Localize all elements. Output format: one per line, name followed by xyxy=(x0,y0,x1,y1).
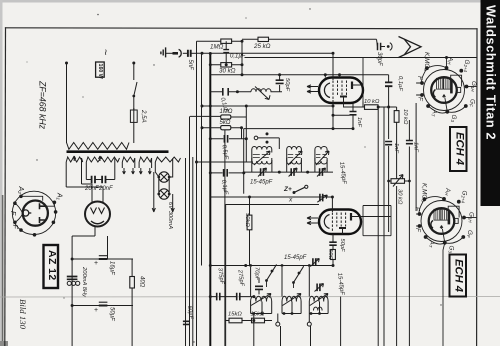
label AZ 12 box xyxy=(44,245,59,288)
capacitor 50pF (screen) xyxy=(273,75,284,92)
IF coil L1a/L1b xyxy=(252,147,272,173)
wire anode v1 down xyxy=(333,103,357,129)
junction (241.5,127.7) xyxy=(240,126,243,129)
S4 down arrows ~ xyxy=(139,168,151,174)
wire rail y197 xyxy=(210,196,333,198)
svg-text:0,1µF: 0,1µF xyxy=(397,76,403,91)
svg-text:~: ~ xyxy=(99,49,111,55)
svg-text:16µF: 16µF xyxy=(109,261,115,275)
wire rail v 409.4 xyxy=(408,120,410,232)
wire rails right to bottom xyxy=(384,103,416,346)
fuse 2.5A xyxy=(130,110,137,122)
socket wires xyxy=(21,196,54,206)
heater arrows F F xyxy=(307,216,318,224)
junction (249.5,197) xyxy=(248,196,251,199)
junction (279.3,172.1) xyxy=(278,171,281,174)
junction (333,53.3) xyxy=(332,52,335,55)
junction (158.8,177) xyxy=(157,176,160,179)
junction (245.7,265.5) xyxy=(244,264,247,267)
title banner xyxy=(481,0,500,206)
resistor 10kΩ (vert) xyxy=(394,107,399,179)
wire rail y57.5 xyxy=(245,57,477,59)
wire bus b xyxy=(189,116,191,346)
mains switch xyxy=(134,82,137,96)
junction (66.5,63) xyxy=(65,62,68,65)
trimmer 70pF xyxy=(255,278,263,294)
svg-text:200mA 8Hy: 200mA 8Hy xyxy=(81,266,87,298)
svg-text:70pF: 70pF xyxy=(254,267,260,281)
svg-text:1nF: 1nF xyxy=(356,117,362,127)
ground xyxy=(161,47,173,57)
svg-text:50Ω: 50Ω xyxy=(327,249,333,260)
svg-text:1nF: 1nF xyxy=(393,143,399,153)
svg-text:15-45pF: 15-45pF xyxy=(250,180,273,186)
grid dashes xyxy=(331,213,333,232)
trimmer C c xyxy=(317,168,326,177)
secondary S3 xyxy=(122,157,135,168)
capacitor 275pF xyxy=(237,293,240,301)
svg-text:10 kΩ: 10 kΩ xyxy=(402,109,408,125)
svg-text:Bild 130: Bild 130 xyxy=(18,299,28,330)
volume pot (coil w arrow) xyxy=(251,87,273,100)
wire S1 legs down xyxy=(66,156,115,187)
junction (378.2,107) xyxy=(377,106,380,109)
lamp La2 xyxy=(159,189,169,199)
svg-text:0,1µF: 0,1µF xyxy=(230,54,246,60)
wire S2 legs down to 20nF rail xyxy=(86,156,115,180)
resistor 50kΩ xyxy=(247,197,252,266)
junction (202,106) xyxy=(201,105,204,108)
lamp wires xyxy=(152,162,174,212)
junction (332.4,197) xyxy=(331,196,334,199)
svg-text:50pF: 50pF xyxy=(339,239,345,253)
wire socket stubs bottom xyxy=(416,214,476,346)
capacitor 30pF xyxy=(378,43,381,50)
capacitor 16µF xyxy=(99,256,108,259)
junction (210.3,296.6) xyxy=(209,295,212,298)
junction (210.3,106) xyxy=(209,105,212,108)
junction (388.6,181) xyxy=(387,180,390,183)
svg-text:Z+: Z+ xyxy=(283,186,292,193)
IF coil L3a/L3b xyxy=(315,147,329,173)
pot 30kΩ xyxy=(389,175,410,187)
terminal B xyxy=(307,322,311,326)
svg-text:30 kΩ: 30 kΩ xyxy=(219,68,236,75)
resistor 5kΩ (stack) xyxy=(202,126,242,139)
wire rail v 378 xyxy=(377,107,379,346)
capacitor 5nF xyxy=(188,50,191,57)
wire bus d xyxy=(196,41,198,346)
wire bus bold B+ xyxy=(209,54,211,346)
wire bus a xyxy=(185,158,187,346)
S1 tap arrow xyxy=(73,156,76,161)
capacitor 50pF (osc) xyxy=(329,234,336,250)
osc coil L4 xyxy=(251,267,272,314)
wire +rail to caps xyxy=(72,236,133,306)
svg-text:2,5A: 2,5A xyxy=(140,109,147,123)
svg-text:1MΩ: 1MΩ xyxy=(220,109,233,115)
wire mains right / switch top xyxy=(133,63,135,80)
switch blade A xyxy=(267,265,277,281)
svg-text:1nF: 1nF xyxy=(413,142,419,152)
svg-text:AZ 12: AZ 12 xyxy=(46,250,58,281)
frame border left xyxy=(4,28,7,346)
filaments V V xyxy=(91,208,105,214)
tube top pins xyxy=(325,75,339,78)
tube V1 bracket to socket xyxy=(344,58,364,108)
S3 down arrows ~ xyxy=(123,168,135,174)
capacitor 20nF (a) xyxy=(92,176,95,183)
svg-text:A₁: A₁ xyxy=(56,192,63,201)
transformer T1 primary xyxy=(67,143,130,150)
svg-text:Waldschmidt Titan 2: Waldschmidt Titan 2 xyxy=(484,5,499,140)
svg-text:5kΩ: 5kΩ xyxy=(220,120,231,126)
junction (210.3,138.8) xyxy=(209,137,212,140)
wire rail v 388.6 xyxy=(388,146,390,232)
label 160W box xyxy=(96,62,105,79)
wire bus c xyxy=(192,157,194,346)
svg-text:30 kΩ: 30 kΩ xyxy=(397,189,403,205)
svg-text:F: F xyxy=(9,211,16,216)
wire 20nF rail xyxy=(86,179,115,181)
junction (242,74.8) xyxy=(241,73,244,76)
svg-text:F: F xyxy=(11,225,18,230)
secondary S5 xyxy=(155,157,180,162)
small coil xyxy=(314,307,323,310)
wire bottoms to edge xyxy=(254,297,341,346)
svg-text:+: + xyxy=(94,260,98,267)
wire rail v 202 xyxy=(201,53,203,265)
anode hexode xyxy=(350,213,352,221)
wire rail v 384 xyxy=(383,107,385,232)
wire socket stubs top xyxy=(416,58,476,96)
left scan edge xyxy=(0,0,3,346)
svg-text:15kΩ: 15kΩ xyxy=(228,312,242,318)
faint fold line xyxy=(0,296,500,299)
pin dots xyxy=(13,195,57,237)
terminal A xyxy=(276,322,280,326)
heater arrows F F xyxy=(307,85,318,93)
wire coil bottoms xyxy=(251,313,329,315)
transformer secondaries xyxy=(66,156,180,176)
anode hexode xyxy=(351,82,353,90)
wire v1 grid down xyxy=(332,53,334,80)
lug arcs xyxy=(428,106,466,113)
wire grid rail y53.3 to tube xyxy=(197,52,334,54)
wire rail v 246.3 xyxy=(245,106,247,162)
svg-text:40Ω: 40Ω xyxy=(139,276,145,288)
resistor 30kΩ (2nd row) xyxy=(210,63,242,67)
svg-text:+: + xyxy=(94,307,98,314)
wire rail y106 xyxy=(202,105,333,107)
wire v2 grid top xyxy=(331,197,333,212)
switch blade B xyxy=(294,267,304,283)
svg-text:1MΩ: 1MΩ xyxy=(210,44,224,51)
svg-text:ZF=468 kHz: ZF=468 kHz xyxy=(38,80,48,130)
tube socket ECH4 (top view) xyxy=(416,52,477,122)
tube V1 envelope xyxy=(319,78,363,104)
tube socket AZ12 (view) xyxy=(12,191,57,236)
capacitor 1nF (v1 anode) xyxy=(350,112,357,115)
capacitor 0.1µF (y92) xyxy=(223,88,228,96)
shield box xyxy=(226,205,319,318)
secondary S2 xyxy=(86,157,119,176)
wire v1 grid to filter xyxy=(244,128,353,130)
anode triode (bottom plate) xyxy=(340,96,347,98)
contact (open) xyxy=(254,136,258,140)
socket inner elements xyxy=(23,210,29,216)
junction (253.8,320.5) xyxy=(252,319,255,322)
junction (237.4,91.8) xyxy=(236,90,239,93)
capacitor 0.5µF xyxy=(210,135,246,143)
transformer T1 core xyxy=(67,150,169,153)
cathode arc xyxy=(324,83,330,98)
junction (267,133.9) xyxy=(266,132,269,135)
S2 tap arrow xyxy=(99,156,102,161)
svg-text:30pF: 30pF xyxy=(376,52,382,66)
junction (266.5,280.5) xyxy=(265,279,268,282)
wire rail y75 xyxy=(210,74,388,76)
junction (325.3,74.8) xyxy=(324,73,327,76)
cathode arc xyxy=(324,215,329,229)
resistor 25kΩ xyxy=(242,37,377,41)
wire trimmer rail xyxy=(244,171,333,173)
trimmer (osc a) xyxy=(310,258,319,266)
electrode hatches xyxy=(437,78,444,89)
wire primary ends xyxy=(67,141,134,143)
frame border right xyxy=(476,29,478,346)
wire bus e xyxy=(224,130,226,346)
lamp La1 xyxy=(159,172,169,182)
capacitor 375pF xyxy=(217,293,220,301)
tube V2 envelope xyxy=(319,210,361,235)
svg-text:6V 300mA: 6V 300mA xyxy=(167,202,173,229)
capacitor 50µF (bus) xyxy=(183,321,190,324)
resistor 50Ω xyxy=(331,250,336,267)
junction (388.2,46.5) xyxy=(387,46,389,48)
secondary S1 xyxy=(66,157,83,176)
choke 200mA 8Hy xyxy=(67,277,80,286)
svg-text:25 kΩ: 25 kΩ xyxy=(253,43,271,50)
wire rail y162 xyxy=(197,161,254,163)
top scan edge xyxy=(0,0,500,3)
svg-text:50kΩ: 50kΩ xyxy=(244,213,250,227)
trimmer (osc b right) xyxy=(315,284,324,292)
grid dashes xyxy=(332,81,334,101)
wire rail y91.8 xyxy=(210,91,251,93)
svg-text:5nF: 5nF xyxy=(187,60,193,71)
capacitor 0.1µF (top) xyxy=(223,41,229,65)
node row xyxy=(252,312,255,315)
svg-text:ECH 4: ECH 4 xyxy=(453,259,465,293)
capacitor 50µF xyxy=(99,302,108,305)
tube wires up/down xyxy=(72,184,103,236)
resistor 40Ω xyxy=(130,259,135,346)
svg-text:10 kΩ: 10 kΩ xyxy=(364,99,380,105)
IF coil L2a/L2b xyxy=(287,147,302,173)
junction (242,64.8) xyxy=(241,63,244,66)
junction (333,128.6) xyxy=(332,127,335,130)
capacitor 20nF (b) xyxy=(102,176,105,183)
jack antenna arc xyxy=(387,43,392,51)
capacitor 1nF (mid) xyxy=(385,142,392,145)
capacitor 0.1µF (screen right) xyxy=(385,75,392,139)
tube socket ECH4 (bottom, top view) xyxy=(414,183,475,253)
trimmer C b xyxy=(289,168,298,177)
svg-text:A₂: A₂ xyxy=(17,186,24,195)
svg-text:15kΩ: 15kΩ xyxy=(251,312,265,318)
pin labels xyxy=(416,52,477,122)
junction (210.3,172.9) xyxy=(209,171,212,174)
capacitor 0.1µF (y173) xyxy=(210,169,244,177)
trimmer C (15-45pF) a xyxy=(258,168,267,177)
label ECH4 box top xyxy=(450,127,467,171)
pin dots xyxy=(420,66,468,114)
junction (250.6,265.5) xyxy=(249,264,252,267)
svg-text:50pF: 50pF xyxy=(284,78,290,92)
resistor 15kΩ a xyxy=(225,318,252,323)
junction (293.5,282.5) xyxy=(292,281,295,284)
resistor 1MΩ top xyxy=(197,39,243,43)
osc coil L6 xyxy=(309,267,328,314)
rectifier tube AZ12 xyxy=(66,184,110,346)
anode triode (bottom plate) xyxy=(339,227,346,229)
junction (242,41.3) xyxy=(241,40,244,43)
resistor 10kΩ (horiz) xyxy=(363,102,397,110)
resistor 15kΩ b xyxy=(252,318,273,323)
tube V2 bracket xyxy=(357,206,391,236)
secondary S4 xyxy=(139,157,152,168)
wire rail y265.5 xyxy=(210,265,333,267)
junction (72.1,259) xyxy=(71,258,74,261)
osc coil L5 xyxy=(282,267,301,314)
antenna symbol xyxy=(399,37,422,58)
svg-text:50µF: 50µF xyxy=(109,307,115,321)
frame border top xyxy=(6,28,478,29)
wire rail y296.6 xyxy=(210,296,254,298)
svg-text:160 W: 160 W xyxy=(97,64,103,79)
wire mains left xyxy=(66,63,68,141)
anode arc xyxy=(91,221,104,224)
trimmer (osc grid) xyxy=(317,194,327,202)
wire blade stubs xyxy=(267,265,304,289)
label ECH4 box bottom xyxy=(450,255,467,297)
svg-text:ECH 4: ECH 4 xyxy=(454,132,466,166)
jack TA xyxy=(173,49,188,57)
svg-text:15-45pF: 15-45pF xyxy=(284,255,307,261)
resistor 1MΩ (stack) xyxy=(190,115,246,119)
capacitor 1nF (right) xyxy=(406,141,413,144)
